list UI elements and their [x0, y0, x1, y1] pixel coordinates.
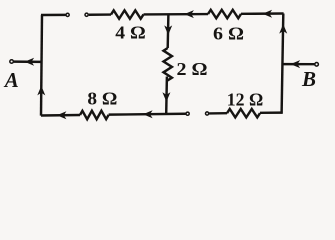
node: terminal B open circle: [315, 63, 319, 67]
svg-text:2 Ω: 2 Ω: [177, 59, 208, 79]
svg-text:B: B: [301, 67, 316, 91]
node: top break left open circle: [66, 13, 69, 16]
resistor R3 2 ohm (vertical zigzag): [164, 48, 172, 81]
current arrow on bottom wire right of 8-ohm (points left): [143, 110, 153, 118]
svg-text:6 Ω: 6 Ω: [213, 23, 244, 43]
wire: terminal A lead: [14, 60, 42, 63]
current arrow on bottom wire left of 8-ohm (points left): [57, 111, 67, 119]
node: terminal A open circle: [10, 60, 14, 64]
wire: middle branch lower (2-ohm to bottom junction): [165, 77, 168, 115]
wire: middle branch upper (node junction to 2-ohm): [166, 14, 169, 48]
node: top break right open circle: [85, 13, 88, 16]
wire: terminal B lead: [282, 63, 315, 66]
wire: bottom segment from 12-ohm to bottom-right corner: [260, 111, 283, 114]
current arrow on terminal A lead (points left): [25, 58, 35, 66]
node: bottom break right open circle: [206, 112, 209, 115]
node: bottom break left open circle: [186, 112, 189, 115]
resistor R2 6 ohm (zigzag): [208, 10, 241, 18]
wire: right vertical branch (B node riser): [282, 14, 284, 114]
current arrow on left vertical branch (points up): [37, 86, 45, 96]
resistor R5 12 ohm (zigzag): [227, 109, 260, 117]
resistor R1 4 ohm (zigzag): [111, 10, 143, 18]
current arrow on terminal B lead (points left): [291, 60, 301, 68]
current arrow on middle branch lower (points down): [162, 92, 170, 102]
wire: top segment from break to 4-ohm resistor: [89, 13, 111, 16]
wire: top segment from 6-ohm to top-right corner: [241, 12, 284, 15]
wire: bottom segment from 8-ohm to break: [109, 113, 186, 116]
wire: bottom segment from break to 12-ohm: [209, 112, 227, 115]
wire: bottom segment from left corner to junction: [41, 114, 80, 117]
current arrow on middle branch upper (points down): [164, 25, 172, 35]
current arrow on top wire right of junction (points left): [184, 10, 194, 18]
wire: top segment from left corner to break: [41, 14, 66, 17]
svg-text:4 Ω: 4 Ω: [115, 23, 146, 43]
current arrow on right vertical branch (points up): [279, 24, 287, 34]
svg-text:8 Ω: 8 Ω: [87, 88, 117, 108]
wire: left vertical branch (A node riser): [41, 15, 42, 116]
svg-text:A: A: [3, 68, 19, 92]
current arrow on top wire right of 6-ohm (points left): [263, 10, 273, 18]
resistor R4 8 ohm (zigzag): [80, 111, 109, 119]
wire: top segment from 4-ohm to 6-ohm resistor (through T junction): [144, 13, 209, 16]
svg-text:12 Ω: 12 Ω: [227, 89, 264, 109]
